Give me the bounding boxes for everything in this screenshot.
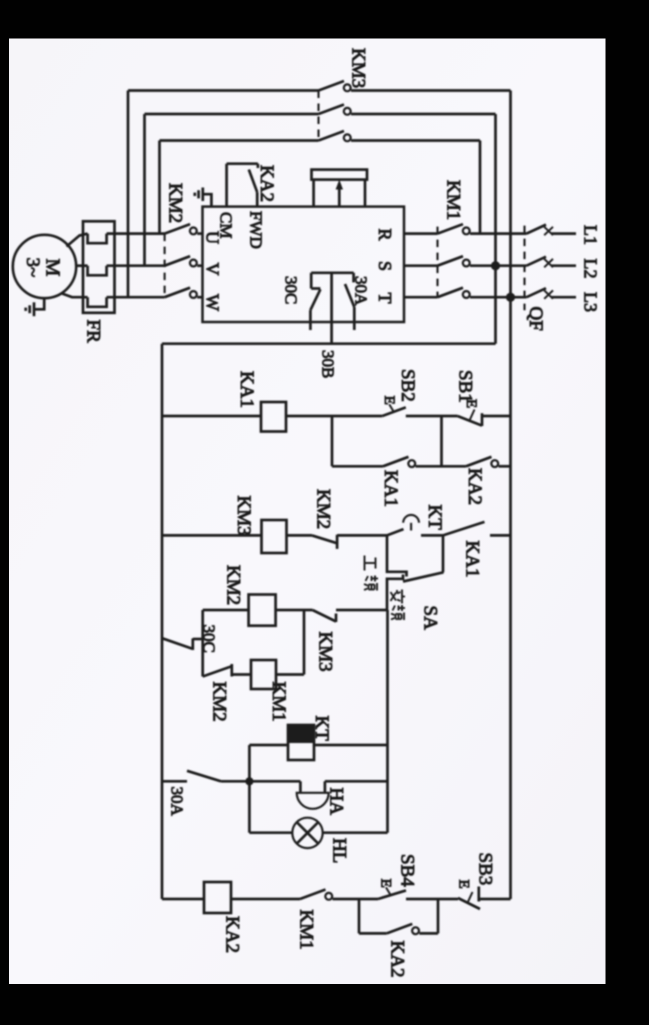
wire KT-rung right — [314, 744, 388, 747]
label SB1 — [455, 370, 476, 403]
wire bypass W + control right rail — [509, 91, 512, 900]
timer coil KT — [288, 725, 314, 760]
wire motor W lead — [62, 294, 88, 298]
node junction KT/alarm — [245, 777, 253, 785]
label T terminal — [375, 293, 395, 304]
contactor KM1 main contact pole S — [438, 256, 527, 266]
wire branch drop left — [331, 416, 334, 466]
wire SA common drop — [442, 535, 445, 572]
svg-text:R: R — [375, 229, 395, 241]
label KA1 (rungB contact) — [462, 541, 483, 578]
label KM1 (main contacts) — [443, 180, 464, 220]
svg-text:L3: L3 — [581, 292, 601, 312]
label KA2 (branch contact) — [387, 941, 408, 978]
wire bypass row y90 right — [351, 89, 511, 92]
wire rung-A mid2 — [406, 415, 458, 418]
contactor coil KM3 — [262, 520, 287, 553]
wire R stub — [404, 232, 438, 235]
svg-text:KA1: KA1 — [380, 470, 401, 507]
breaker QF pole L2 — [527, 257, 577, 268]
label 30A (control) — [168, 787, 187, 817]
wire bypass V + control feed vertical — [494, 114, 497, 344]
label KM2 (NC rungB) — [313, 489, 334, 529]
label KM1 (coil) — [268, 682, 289, 722]
svg-text:HL: HL — [329, 838, 350, 863]
label FWD terminal — [247, 211, 266, 249]
label KA2 (hold contact) — [464, 468, 485, 505]
wire inverter earth lead — [204, 194, 212, 206]
svg-text:E: E — [381, 396, 397, 405]
wire bypass row y114 right — [351, 113, 496, 116]
wire 30B stem — [330, 273, 333, 344]
svg-text:KA1: KA1 — [236, 371, 257, 408]
wire bottom-rung w3 — [406, 898, 458, 901]
svg-text:KA2: KA2 — [256, 165, 277, 202]
wire rung-D right — [276, 673, 304, 676]
wire rung-A left — [162, 415, 261, 418]
wire bypass U right vertical — [479, 141, 482, 234]
KM3 mech linkage (dashed) — [317, 91, 319, 141]
svg-text:V: V — [203, 263, 223, 276]
wire bottom-rung w1 — [162, 898, 204, 901]
label HA — [326, 788, 347, 816]
wire bypass row y140 left — [160, 139, 319, 142]
contact 30C (alarm NC) — [162, 638, 203, 650]
label W terminal — [203, 294, 223, 311]
wire U line FR-KM2 — [107, 232, 165, 235]
SA bianpin stub — [387, 575, 403, 611]
contact 30C (NC) — [310, 273, 320, 330]
svg-text:E: E — [378, 879, 394, 888]
wire branch left — [332, 465, 383, 468]
wire V line FR-KM2 — [107, 264, 165, 267]
svg-text:30A: 30A — [352, 276, 371, 306]
svg-text:E: E — [456, 880, 472, 889]
label L1 — [581, 225, 601, 245]
label CM terminal — [217, 212, 236, 238]
svg-text:CM: CM — [217, 212, 236, 238]
wire bypass row y114 left — [145, 113, 319, 116]
wire motor earth lead — [35, 298, 44, 309]
svg-text:KM3: KM3 — [348, 48, 369, 88]
wire rung-C w1 — [276, 609, 313, 612]
contactor KM2 main contact pole V — [165, 256, 203, 266]
wire control left rail — [161, 344, 164, 899]
label S terminal — [375, 261, 395, 271]
label 30C — [282, 276, 301, 304]
breaker QF pole L3 — [527, 288, 577, 299]
wire T stub — [404, 296, 438, 299]
timer contact KT (delayed) — [387, 515, 443, 536]
wire W line FR-KM2 — [107, 296, 165, 299]
relay contact KA2 (jog bypass) — [387, 924, 438, 934]
label KA2 (FWD contact) — [256, 165, 277, 202]
label KA2 (coil) — [222, 916, 243, 953]
potentiometer RP box — [312, 170, 368, 180]
wire KT drop — [248, 745, 251, 781]
svg-text:3~: 3~ — [22, 258, 43, 278]
label KA1 (coil) — [236, 371, 257, 408]
lamp HL — [292, 818, 322, 848]
contactor KM1 main contact pole T — [438, 288, 527, 298]
svg-text:L2: L2 — [581, 259, 601, 279]
label KT (coil) — [311, 716, 332, 742]
contact 30A (NO) — [345, 273, 354, 330]
svg-text:SB4: SB4 — [397, 854, 418, 887]
svg-text:QF: QF — [525, 307, 546, 331]
contactor coil KM2 — [249, 595, 276, 626]
svg-text:HA: HA — [326, 788, 347, 816]
wire rungC-rungD link — [303, 610, 306, 675]
wire 30 common bar — [311, 271, 353, 274]
label 30A — [352, 276, 371, 306]
wire CM riser — [225, 164, 228, 207]
QF mech linkage (dashed) — [523, 226, 525, 311]
label KA1 (hold contact) — [380, 470, 401, 507]
wire bottom-rung w4 — [480, 898, 511, 901]
ground (inverter PE) — [195, 188, 203, 202]
heater element FR phase W — [88, 297, 107, 307]
selector switch SA blade — [403, 572, 444, 581]
wire S stub — [404, 264, 438, 267]
pushbutton SB4 (NO) — [378, 879, 406, 899]
contact KM2 (NC interlock) — [312, 535, 387, 549]
label KM3 (coil) — [233, 496, 254, 536]
relay contact KA2 (hold) — [442, 457, 511, 467]
KM1 mech linkage (dashed) — [436, 227, 438, 298]
label SB2 — [397, 369, 418, 402]
contactor KM1 main contact pole R — [438, 224, 527, 234]
contact KM2 (NC interlock rungD) — [203, 664, 251, 677]
thermal overload relay FR box — [83, 221, 115, 312]
wire bypass row y90 left — [128, 89, 319, 92]
svg-text:KM1: KM1 — [268, 682, 289, 722]
wire bypass V vertical — [143, 114, 146, 266]
label 30C (control) — [200, 625, 219, 653]
contact KM3 (NC interlock) — [313, 610, 388, 622]
relay contact KA1 (rungB) — [443, 522, 511, 536]
horn HA — [297, 781, 329, 809]
label 工频 (line-freq position) — [364, 556, 378, 591]
wire motor V lead — [76, 264, 87, 267]
wire KA2-branch left — [359, 932, 387, 935]
ground (motor PE) — [26, 302, 34, 316]
svg-text:KM2: KM2 — [209, 682, 230, 722]
label QF — [525, 307, 546, 331]
svg-text:SA: SA — [420, 606, 441, 631]
wire KA2-branch right drop — [437, 899, 440, 933]
node junction L2/control — [491, 261, 500, 270]
wire bypass U vertical — [158, 141, 161, 234]
wire rung-A mid1 — [286, 415, 382, 418]
svg-text:KM2: KM2 — [165, 183, 186, 223]
svg-text:M: M — [42, 259, 64, 277]
heater element FR phase U — [88, 234, 107, 244]
SA gongpin stub — [387, 535, 407, 576]
wire bypass row y140 right — [351, 139, 480, 142]
wire rung-B left — [162, 534, 262, 537]
svg-text:KT: KT — [311, 716, 332, 742]
wire pot right leg — [364, 180, 367, 207]
svg-text:KM3: KM3 — [315, 632, 336, 672]
wire KA2-branch left drop — [358, 899, 361, 933]
svg-text:KA2: KA2 — [464, 468, 485, 505]
svg-text:SB1: SB1 — [455, 370, 476, 403]
label U terminal — [203, 231, 223, 244]
wire KT-rung left — [249, 744, 288, 747]
contact 30A (alarm NO) — [162, 771, 300, 782]
wire motor U lead — [67, 234, 88, 247]
svg-text:FWD: FWD — [247, 211, 266, 249]
label KM2 (NC rungD) — [209, 682, 230, 722]
label R terminal — [375, 229, 395, 241]
relay coil KA2 — [204, 882, 231, 913]
relay coil KA1 — [261, 402, 286, 432]
relay contact KA1 (self hold) — [383, 457, 442, 467]
heater element FR phase V — [88, 266, 107, 276]
wire lamp right — [323, 831, 388, 834]
wire control top rail — [162, 342, 496, 345]
relay contact KA2 (FWD command) — [227, 164, 258, 207]
label SA — [420, 606, 441, 631]
wire branch drop mid — [440, 416, 443, 466]
wire rung-B w1 — [287, 534, 313, 537]
label FR — [83, 320, 104, 344]
breaker QF pole L1 — [527, 225, 577, 236]
wire signal right vertical — [386, 610, 389, 833]
motor M (3-phase) — [13, 235, 76, 298]
svg-text:SB2: SB2 — [397, 369, 418, 402]
svg-text:KT: KT — [424, 505, 445, 531]
svg-text:KA1: KA1 — [462, 541, 483, 578]
wire HA right — [325, 780, 388, 783]
contactor KM3 main contact pole L3 — [319, 81, 351, 91]
label L3 — [581, 292, 601, 312]
svg-text:KM1: KM1 — [443, 180, 464, 220]
label SB4 — [397, 854, 418, 887]
svg-text:30A: 30A — [168, 787, 187, 817]
svg-text:30B: 30B — [319, 350, 338, 378]
pot wiper arrow — [336, 180, 343, 207]
svg-text:T: T — [375, 293, 395, 304]
inverter U1 box — [203, 207, 405, 322]
svg-text:S: S — [375, 261, 395, 271]
svg-text:KM2: KM2 — [313, 489, 334, 529]
relay contact KM1 (aux NO) — [300, 890, 378, 900]
pushbutton SB3 (NC) — [456, 880, 481, 910]
label KM3 (NC rungC) — [315, 632, 336, 672]
contactor KM3 main contact pole L2 — [319, 105, 351, 115]
label KT (contact) — [424, 505, 445, 531]
wire bypass W vertical — [127, 91, 130, 298]
contactor KM2 main contact pole W — [165, 288, 203, 298]
label HL — [329, 838, 350, 863]
svg-text:W: W — [203, 294, 223, 311]
wire lamp drop left — [248, 781, 251, 832]
wire coil-left vertical — [201, 610, 204, 677]
label 30B — [319, 350, 338, 378]
wire rung-C left corner — [203, 609, 249, 612]
svg-text:FR: FR — [83, 320, 104, 344]
pushbutton SB1 (NC stop) — [458, 399, 483, 426]
label KM2 (coil) — [223, 565, 244, 605]
svg-text:L1: L1 — [581, 225, 601, 245]
label KM3 (main contacts) — [348, 48, 369, 88]
svg-text:30C: 30C — [282, 276, 301, 304]
label 变频 (inverter position) — [391, 590, 406, 621]
node junction L3/right-rail — [506, 293, 515, 302]
svg-text:KA2: KA2 — [222, 916, 243, 953]
svg-text:KM3: KM3 — [233, 496, 254, 536]
label L2 — [581, 259, 601, 279]
label KM2 (main contacts) — [165, 183, 186, 223]
svg-text:30C: 30C — [200, 625, 219, 653]
label V terminal — [203, 263, 223, 276]
KM2 mech linkage (dashed) — [164, 234, 166, 298]
wire lamp left — [249, 831, 292, 834]
contactor coil KM1 — [251, 660, 276, 689]
contactor KM2 main contact pole U — [165, 224, 203, 234]
svg-text:KM2: KM2 — [223, 565, 244, 605]
svg-text:KM1: KM1 — [296, 910, 317, 950]
label SB3 — [475, 853, 496, 886]
wire rung-A right — [483, 415, 511, 418]
svg-text:KA2: KA2 — [387, 941, 408, 978]
svg-text:SB3: SB3 — [475, 853, 496, 886]
contactor KM3 main contact pole L1 — [319, 131, 351, 141]
label KM1 (aux contact) — [296, 910, 317, 950]
wire bottom-rung w2 — [231, 898, 300, 901]
wire pot left leg — [312, 180, 315, 207]
pushbutton SB2 (NO) — [381, 396, 406, 416]
